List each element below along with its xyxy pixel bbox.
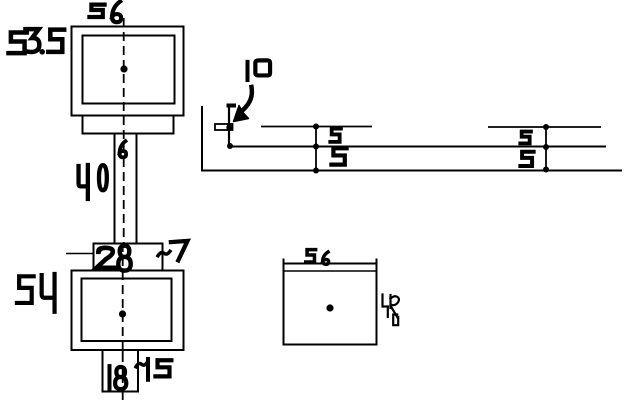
arrowhead [234, 106, 249, 122]
dimension text 6 (shaft) [119, 141, 126, 157]
square (bottom right) [284, 264, 377, 345]
label ~7 (boss height) [158, 241, 187, 261]
inner square (upper block) [83, 36, 175, 104]
dimension text 40 (shaft length) [79, 165, 107, 199]
boss rect [94, 244, 163, 271]
dimension text 56 (square width) [306, 250, 329, 265]
centerline through tenon [122, 345, 124, 400]
tab rectangle [215, 124, 233, 130]
center dot (square) [326, 304, 333, 311]
tie line right [545, 127, 547, 170]
dimension text 53.5 (left height) [8, 29, 64, 54]
dimension text 54 (left height lower) [17, 274, 55, 312]
dimension 5 (lower, left tie) [331, 148, 346, 164]
pedestal rect [83, 116, 174, 134]
top rail segment 2 [488, 126, 601, 128]
datum bracket top tick [227, 104, 237, 108]
tenon rect [103, 350, 139, 392]
tie line left [315, 127, 317, 171]
label 10 (callout) [248, 60, 271, 80]
dimension 5 (upper, left tie) [330, 129, 341, 142]
square inner top line [284, 270, 377, 272]
dimension text 18 (inside tenon) [110, 366, 127, 389]
top rail segment 1 [261, 126, 372, 128]
leader line left of boss [66, 253, 93, 255]
label ~15 (tenon) [136, 359, 171, 380]
dashed centerline (upper assembly) [123, 18, 125, 243]
shaft rect [115, 134, 137, 244]
datum bracket vertical [228, 106, 230, 147]
dimension text 56 (top width) [89, 1, 121, 22]
rotated 45 label (right of square) [383, 295, 399, 326]
dimension 5 (upper, right tie) [520, 132, 531, 144]
left corner rail (vertical + bottom) [202, 106, 622, 171]
center dot (upper block) [120, 65, 127, 72]
curved leader arrow [243, 87, 252, 111]
square top end ticks [284, 259, 377, 264]
center dot (lower block) [119, 310, 126, 317]
node dot bracket bottom [227, 143, 233, 149]
outer square (upper block) [72, 27, 184, 116]
outer square (lower block) [72, 271, 184, 351]
tie line left dots [313, 124, 319, 174]
dimension 5 (lower, right tie) [520, 152, 533, 166]
inner square (lower block) [82, 279, 172, 342]
tie line right dots [543, 124, 549, 173]
middle rail [229, 146, 606, 148]
dimension text 28 (inside boss) [97, 246, 131, 271]
node dot on bracket [226, 124, 232, 130]
dashed centerline (lower assembly) [122, 243, 124, 345]
